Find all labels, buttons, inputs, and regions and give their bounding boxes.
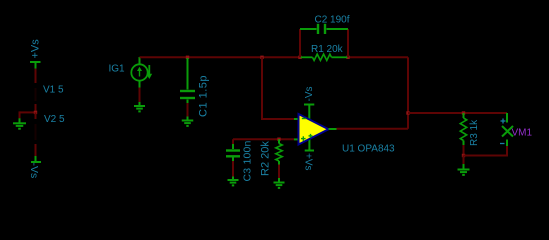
wire C3 to ground: [232, 161, 234, 177]
svg-text:C2 190f: C2 190f: [315, 15, 350, 26]
wire to inverting input: [261, 118, 294, 120]
label V1 5: [43, 85, 64, 96]
op-amp U1 plus power marker: [309, 134, 313, 138]
op-amp U1 triangle: [299, 114, 329, 145]
wire top rail left: [140, 56, 301, 58]
label V2 5: [44, 114, 65, 125]
wire output: [337, 128, 409, 130]
label C3 100n: [242, 140, 254, 181]
svg-text:V2 5: V2 5: [44, 114, 65, 125]
svg-text:C1 1.5p: C1 1.5p: [198, 75, 210, 117]
capacitor C3: [226, 139, 240, 161]
node inverting branch junction: [260, 56, 263, 59]
jumper +Vs symbol: [30, 62, 41, 69]
ground GND1: [13, 118, 26, 128]
ground GND2: [134, 102, 145, 111]
capacitor C2: [300, 24, 348, 34]
ground GND4: [228, 177, 239, 186]
label U1 OPA843: [342, 144, 395, 155]
wire inverting drop: [261, 57, 263, 119]
op-amp U1 output lead: [329, 128, 337, 130]
svg-text:V1 5: V1 5: [43, 85, 64, 96]
wire R3 to bottom node: [463, 145, 465, 157]
node R2 junction: [277, 138, 280, 141]
op-amp U1 plus input marker: [301, 136, 306, 141]
svg-text:R1 20k: R1 20k: [311, 44, 344, 55]
jumper -Vs label: [28, 163, 40, 179]
node R3 bottom junction: [462, 154, 465, 157]
ground GND5: [274, 178, 285, 188]
wire IG1 to ground: [139, 88, 141, 103]
svg-text:U1 OPA843: U1 OPA843: [342, 144, 395, 155]
current source IG1 circle: [131, 64, 147, 80]
ground GND6: [458, 164, 470, 175]
wire feedback drop: [407, 57, 409, 129]
label IG1: [109, 64, 126, 75]
voltmeter VM1 plus marker: [501, 119, 506, 124]
wire +Vs jumper to V1: [35, 69, 37, 84]
resistor R2: [276, 139, 282, 164]
wire noninverting horizontal: [233, 138, 294, 140]
jumper +Vs label: [30, 39, 42, 59]
node feedback right: [346, 56, 349, 59]
node output junction: [406, 111, 409, 114]
voltmeter VM1 top lead: [506, 113, 508, 123]
op-amp U1 -Vs label: [304, 87, 315, 102]
label VM1: [512, 128, 533, 139]
current source IG1 inner arrow: [137, 67, 142, 77]
label C1 1.5p: [198, 75, 210, 117]
label C2 190f: [315, 15, 350, 26]
resistor R1: [301, 54, 348, 60]
wire top rail right: [348, 56, 408, 58]
svg-text:R3 1k: R3 1k: [469, 119, 480, 146]
wire V2 to -Vs jumper: [35, 144, 37, 157]
label R3 1k: [469, 119, 480, 146]
voltmeter VM1 minus marker: [500, 143, 505, 145]
resistor R3: [460, 113, 466, 145]
svg-text:+Vs: +Vs: [303, 153, 314, 171]
op-amp inverting input lead: [294, 118, 299, 120]
battery V1 (dark): [35, 88, 37, 101]
svg-text:-Vs: -Vs: [304, 87, 315, 102]
node C1 junction: [186, 56, 189, 59]
wire V1 to node: [35, 104, 37, 113]
wire R2 to ground: [278, 165, 280, 179]
svg-text:IG1: IG1: [109, 64, 126, 75]
wire output horizontal: [408, 112, 507, 114]
voltmeter VM1 cross symbol: [502, 126, 513, 137]
op-amp U1 +Vs label: [303, 153, 314, 171]
wire node to ground: [19, 111, 21, 119]
wire R3 node to ground: [463, 156, 465, 165]
IG1 bottom lead: [139, 81, 141, 88]
wire C1 to ground: [187, 103, 189, 117]
wire bottom return: [464, 155, 508, 157]
IG1 top lead: [139, 57, 141, 65]
op-amp U1 bottom power lead: [305, 138, 314, 151]
ground GND3: [182, 117, 194, 126]
wire VM1 bottom: [506, 146, 508, 157]
label R2 20k: [260, 141, 272, 176]
svg-text:+Vs: +Vs: [30, 39, 42, 59]
capacitor C1: [180, 58, 195, 103]
node V1-V2-ground junction: [20, 111, 38, 114]
op-amp U1 top power lead: [304, 105, 314, 121]
node R3 top junction: [462, 111, 465, 114]
op-amp noninverting input lead: [294, 138, 299, 140]
svg-text:-Vs: -Vs: [28, 163, 40, 179]
jumper -Vs symbol: [31, 156, 41, 162]
wire C2 left vertical: [299, 29, 301, 57]
op-amp U1 minus marker: [302, 118, 306, 120]
battery V2 (dark): [35, 124, 37, 140]
svg-text:R2 20k: R2 20k: [260, 141, 272, 176]
current source IG1 direction arrow: [146, 65, 152, 79]
wire node to V2: [35, 112, 37, 119]
node feedback left: [298, 56, 301, 59]
label R1 20k: [311, 44, 344, 55]
wire C2 right vertical: [347, 29, 349, 57]
svg-text:VM1: VM1: [512, 128, 533, 139]
voltmeter VM1 bottom lead: [506, 140, 508, 147]
svg-text:C3 100n: C3 100n: [242, 140, 254, 181]
